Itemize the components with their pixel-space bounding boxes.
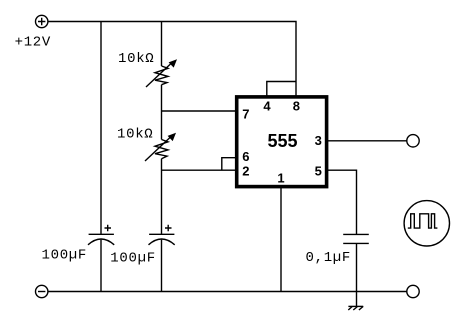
svg-text:555: 555: [267, 131, 297, 151]
svg-text:10kΩ: 10kΩ: [117, 127, 153, 143]
svg-text:6: 6: [242, 149, 249, 164]
svg-text:4: 4: [263, 99, 271, 114]
svg-text:+12V: +12V: [15, 35, 51, 51]
svg-text:0,1µF: 0,1µF: [306, 250, 352, 266]
svg-text:5: 5: [315, 163, 322, 178]
svg-text:3: 3: [315, 133, 322, 148]
svg-text:10kΩ: 10kΩ: [118, 51, 154, 67]
svg-text:1: 1: [277, 170, 284, 185]
svg-text:2: 2: [242, 163, 249, 178]
svg-text:7: 7: [242, 106, 249, 121]
svg-text:100µF: 100µF: [42, 248, 88, 264]
svg-text:100µF: 100µF: [110, 251, 156, 267]
svg-text:8: 8: [293, 99, 300, 114]
